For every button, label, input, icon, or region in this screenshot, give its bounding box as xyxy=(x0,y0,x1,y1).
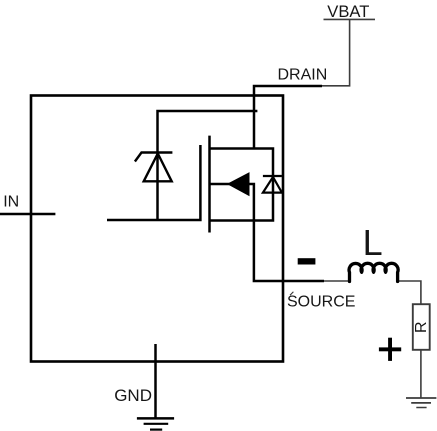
svg-text:L: L xyxy=(363,222,383,263)
svg-text:SOURCE: SOURCE xyxy=(287,294,355,311)
svg-text:R: R xyxy=(413,321,430,333)
svg-text:DRAIN: DRAIN xyxy=(278,67,328,84)
svg-text:GND: GND xyxy=(114,386,152,405)
svg-text:IN: IN xyxy=(3,194,19,211)
svg-text:VBAT: VBAT xyxy=(327,2,369,21)
